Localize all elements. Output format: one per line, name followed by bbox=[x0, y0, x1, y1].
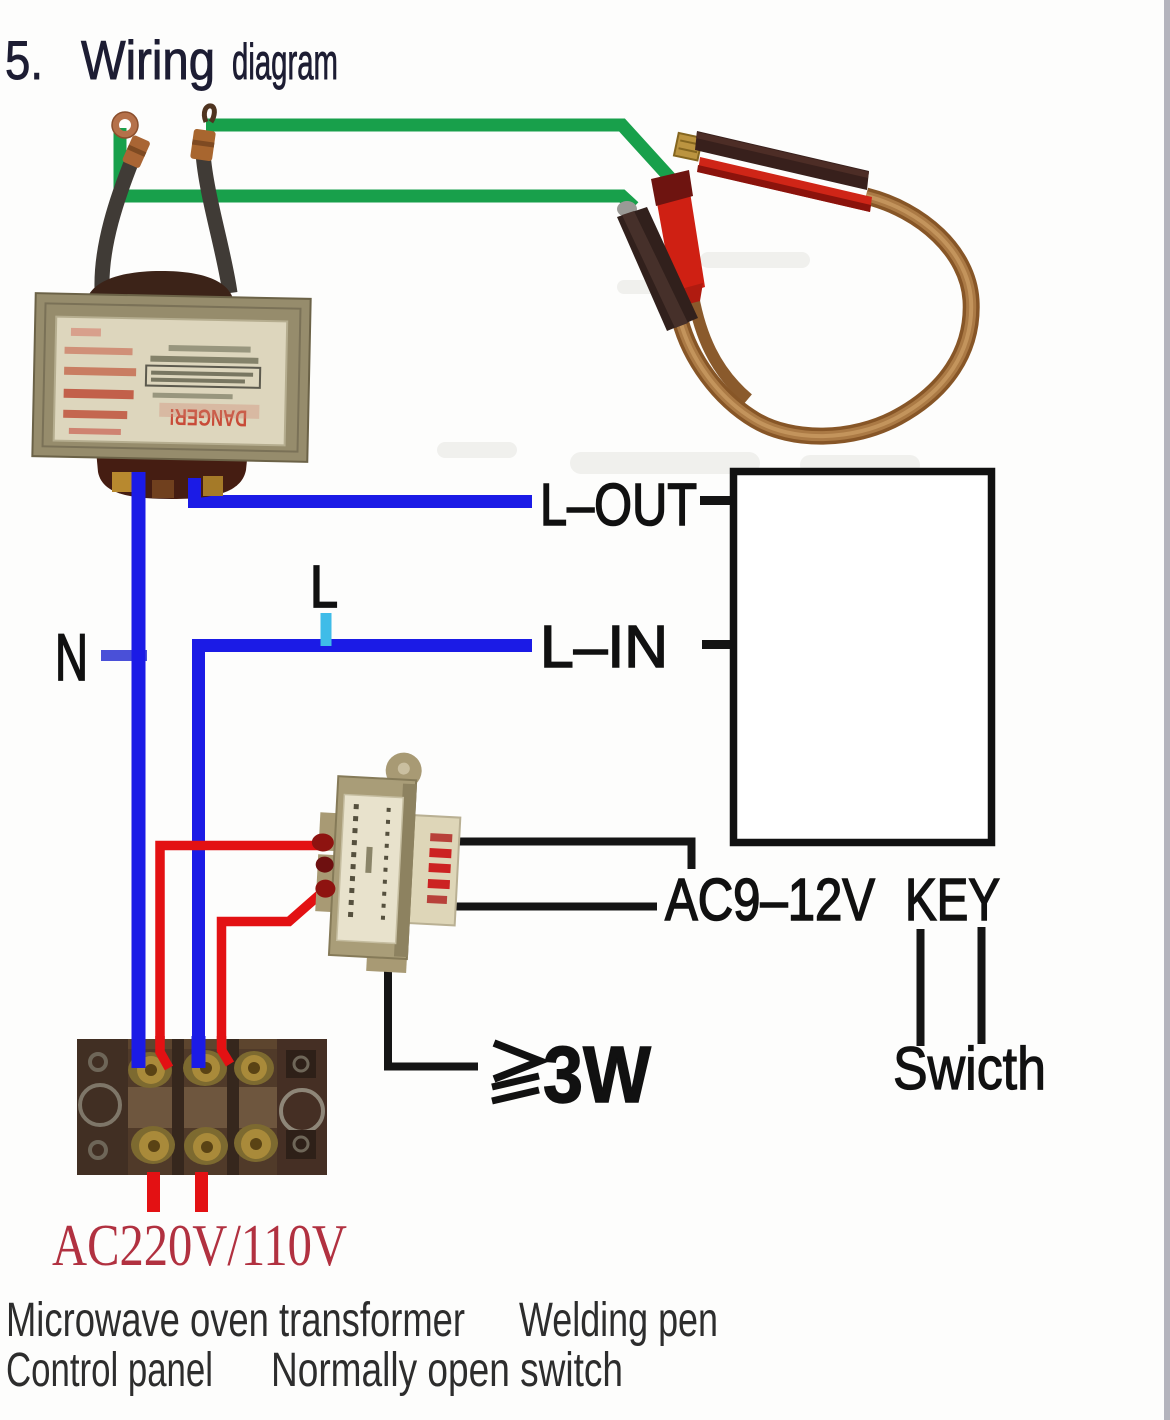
T1 left cable bbox=[102, 158, 133, 288]
caption: Normally open switch bbox=[271, 1344, 623, 1397]
svg-text:Welding pen: Welding pen bbox=[519, 1294, 718, 1347]
node L cyan tick bbox=[321, 613, 332, 646]
T1 right lug hook bbox=[204, 106, 214, 122]
svg-text:L: L bbox=[310, 554, 338, 620]
svg-text:Microwave oven transformer: Microwave oven transformer bbox=[6, 1294, 465, 1347]
microwave oven transformer T1 (photo) bbox=[32, 106, 310, 499]
T1 right lug sleeve bbox=[190, 129, 216, 162]
svg-text:diagram: diagram bbox=[232, 34, 338, 90]
label 3W bbox=[543, 1030, 651, 1119]
pen dark handle bbox=[617, 207, 698, 331]
T1 bottom coil bbox=[96, 450, 248, 499]
pen red handle bbox=[653, 173, 705, 297]
label KEY bbox=[905, 867, 1000, 933]
T2 right pin housing bbox=[407, 815, 461, 925]
pen dark rod electrode bbox=[695, 131, 869, 190]
pen copper strand from red handle bbox=[693, 296, 748, 399]
label dark text block (right) bbox=[169, 345, 251, 353]
T2 left tabs bbox=[318, 812, 338, 851]
control panel box bbox=[734, 472, 992, 843]
T2 label dots bbox=[348, 804, 391, 920]
wire stubs in front of T1 bottom coil bbox=[132, 472, 202, 504]
label N bbox=[55, 620, 88, 694]
T2 core body bbox=[329, 776, 416, 959]
label L-IN bbox=[540, 614, 668, 680]
red wire stub bottom right bbox=[195, 1172, 208, 1212]
label AC220V/110V bbox=[52, 1212, 347, 1278]
T1 top coil bbox=[86, 271, 234, 302]
black wire: T2 bottom to 3W label bbox=[388, 962, 478, 1067]
title bbox=[5, 29, 338, 91]
terminal block TB1 (photo) bbox=[77, 1039, 327, 1175]
small transformer T2 (photo) bbox=[305, 748, 463, 975]
red wire 2: terminal block to T2 lower left pin bbox=[222, 889, 327, 1065]
svg-text:AC220V/110V: AC220V/110V bbox=[52, 1212, 347, 1278]
label >=3W : >= symbol drawn bbox=[492, 1043, 540, 1101]
svg-text:L–OUT: L–OUT bbox=[540, 472, 697, 538]
label faded red rows (left column) bbox=[71, 328, 101, 337]
T2 bottom tab bbox=[366, 951, 407, 973]
black wire: T2 lower right pin to AC9-12V label bbox=[455, 903, 657, 911]
svg-text:3W: 3W bbox=[543, 1030, 651, 1119]
black wire: T2 upper right pin to panel bottom (AC9-12V) bbox=[455, 842, 692, 870]
T2 top tab bbox=[385, 752, 423, 790]
caption: Microwave oven transformer bbox=[6, 1294, 465, 1347]
caption: Welding pen bbox=[519, 1294, 718, 1347]
label Swicth bbox=[893, 1035, 1046, 1102]
svg-text:5.: 5. bbox=[5, 29, 43, 91]
red wire stub bottom left bbox=[147, 1172, 160, 1212]
T1 right cable bbox=[203, 153, 230, 293]
wire ends entering terminal block bbox=[132, 1036, 231, 1068]
svg-text:KEY: KEY bbox=[905, 867, 1000, 933]
pen dark handle silver tip bbox=[617, 201, 637, 217]
red wire 1: terminal block to T2 upper left pin bbox=[160, 846, 326, 1073]
pen brass tip bbox=[674, 133, 702, 160]
blue wire L-OUT: from T1 bottom to control panel label bbox=[195, 476, 533, 502]
T1 body bbox=[32, 293, 310, 462]
svg-text:L–IN: L–IN bbox=[540, 614, 668, 680]
pen red sleeve electrode bbox=[698, 157, 872, 212]
T2 label bbox=[337, 795, 404, 944]
node N tick bbox=[101, 650, 147, 661]
DANGER stamp upside down bbox=[169, 404, 248, 432]
T1 left lug ring bbox=[116, 116, 135, 135]
svg-text:Wiring: Wiring bbox=[81, 29, 215, 91]
key switch lead right bbox=[978, 927, 986, 1044]
T1 left lug crimp bbox=[122, 135, 151, 169]
wire: green wire from T1 left lug to welding pen dark electrode bbox=[120, 128, 634, 207]
TB1 brass washers and screws bbox=[128, 1050, 278, 1165]
wire stub: L-IN text to control panel bbox=[702, 640, 731, 649]
caption: Control panel bbox=[6, 1344, 213, 1397]
pen copper cable loop bbox=[680, 196, 971, 436]
blue wire L-IN: from control panel label down to terminal block bbox=[199, 646, 533, 1069]
label L-OUT bbox=[540, 472, 697, 538]
wire: green wire from T1 right lug to welding pen red electrode bbox=[206, 125, 672, 180]
blue wire N: from T1 bottom to terminal block bbox=[132, 483, 146, 1068]
page right edge line bbox=[1164, 0, 1170, 1420]
svg-text:Normally open switch: Normally open switch bbox=[271, 1344, 623, 1397]
label L bbox=[310, 554, 338, 620]
svg-text:AC9–12V: AC9–12V bbox=[665, 867, 876, 933]
welding pen (photo) bbox=[617, 131, 971, 436]
TB1 left side screw outlines bbox=[80, 1085, 120, 1125]
svg-text:Control panel: Control panel bbox=[6, 1344, 213, 1397]
photo background smudges bbox=[437, 252, 920, 475]
svg-text:Swicth: Swicth bbox=[893, 1035, 1046, 1102]
label AC9-12V bbox=[665, 867, 876, 933]
key switch lead left bbox=[917, 929, 925, 1046]
svg-text:N: N bbox=[55, 620, 88, 694]
wire stub: L-OUT text to control panel bbox=[700, 496, 731, 505]
T2 left pin blobs bbox=[311, 833, 334, 852]
